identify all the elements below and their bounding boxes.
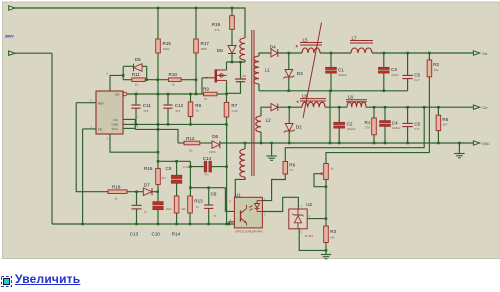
wire R13 bottom lead <box>189 213 191 224</box>
wire C8 top lead <box>208 188 210 205</box>
wire U2 anode down <box>299 229 326 251</box>
wire C8 bottom lead <box>208 208 210 224</box>
wire R16 bottom to D7 row / C10 top <box>157 184 159 201</box>
wire primary ground rail D6 to GND terminal <box>220 142 474 144</box>
svg-text:GND: GND <box>482 142 490 146</box>
capacitor C4 <box>380 121 402 131</box>
wire ground stem secondary <box>271 143 273 156</box>
wire R5 top lead <box>437 107 439 115</box>
zoom icon <box>1 274 12 285</box>
wire U2 ref to divider <box>307 218 326 220</box>
wire R11 to R10 <box>145 79 168 81</box>
transformer primary winding bottom <box>240 149 245 177</box>
wire IC FB pin <box>83 128 96 130</box>
resistor R12 <box>184 136 200 153</box>
wire R2 bottom 24v sense down <box>428 77 430 153</box>
wire L5 to L7 <box>320 52 351 54</box>
ground secondary common <box>266 156 276 160</box>
wire 24V common down-link to ground rail <box>329 91 331 143</box>
wire C5 bottom lead <box>407 79 409 91</box>
svg-text:L8: L8 <box>348 94 354 99</box>
capacitor C8 <box>204 191 217 217</box>
wire gate drive bus from IC output <box>127 93 204 95</box>
wire IC right pins crossbar <box>134 119 136 129</box>
svg-text:1000uF: 1000uF <box>347 127 356 131</box>
svg-text:12v: 12v <box>482 106 488 110</box>
svg-text:C9: C9 <box>166 166 172 171</box>
wire D2 bottom lead <box>288 131 290 143</box>
resistor preset 1k divider top <box>319 164 334 180</box>
svg-text:475: 475 <box>143 109 148 113</box>
wire left column x=52 down to bottom bus <box>51 53 53 224</box>
svg-text:R3: R3 <box>330 229 336 234</box>
wire C2 top lead <box>338 107 340 122</box>
wire REF column down to R18 <box>76 103 108 192</box>
op-amp U2 TL431 shunt regulator <box>289 202 314 238</box>
svg-text:REF: REF <box>98 101 104 105</box>
wire preset wiper loop <box>314 174 326 187</box>
wire R9 to source column <box>217 93 227 95</box>
wire C5 top lead <box>407 53 409 75</box>
svg-text:R18: R18 <box>112 185 121 190</box>
svg-text:0.47: 0.47 <box>415 127 421 131</box>
svg-text:R12: R12 <box>186 136 195 141</box>
wire D5 top right <box>142 65 147 67</box>
transformer core <box>252 30 254 176</box>
inductor L7 <box>350 35 373 53</box>
ground TL431 divider <box>321 255 331 259</box>
wire optocoupler pin2 jog to C8 link <box>225 188 235 212</box>
wire R8 top lead <box>190 94 192 102</box>
svg-text:GND: GND <box>112 123 120 127</box>
wire R19 top lead <box>231 8 233 16</box>
svg-text:R13: R13 <box>194 199 203 204</box>
svg-text:47u: 47u <box>204 172 209 176</box>
capacitor C3 <box>378 67 399 77</box>
wire C10 bottom to bus <box>157 209 159 224</box>
resistor R8 <box>188 102 201 117</box>
wire FB column down to bus <box>82 129 84 224</box>
resistor R18 <box>108 185 127 201</box>
svg-text:47: 47 <box>290 168 294 172</box>
wire L2 bottom to ground rail <box>260 132 262 143</box>
wire 300V top rail from input terminal to transformer primary <box>14 8 245 38</box>
resistor R11 <box>132 72 145 86</box>
inductor L8 <box>346 94 367 107</box>
diode D7 <box>143 183 152 196</box>
svg-text:300V: 300V <box>5 33 14 38</box>
svg-text:D5: D5 <box>135 57 141 62</box>
svg-text:R11: R11 <box>132 72 141 77</box>
wire 24V common bus y=90.8 <box>259 90 408 92</box>
wire R18 to D7 <box>127 191 143 193</box>
terminal input top (300V+) <box>9 6 15 10</box>
svg-text:D8: D8 <box>217 48 223 53</box>
diode D2 zener <box>284 124 302 133</box>
wire L8 to 12v terminal <box>366 106 473 108</box>
svg-text:10: 10 <box>135 83 139 87</box>
svg-text:C11: C11 <box>143 103 152 108</box>
wire R12 left lead <box>178 142 184 144</box>
wire D7 to R16 column <box>152 191 158 193</box>
svg-text:C6: C6 <box>414 121 420 126</box>
svg-text:R5: R5 <box>442 117 448 122</box>
svg-text:R2: R2 <box>433 62 439 67</box>
svg-text:R19: R19 <box>212 22 221 27</box>
capacitor snubber 100p <box>235 75 247 82</box>
capacitor C10 <box>152 202 173 237</box>
op-amp U3 PWM controller IC <box>91 73 139 141</box>
wire divider column below preset <box>325 180 327 227</box>
svg-text:C5: C5 <box>414 73 420 78</box>
svg-text:L2: L2 <box>266 117 272 122</box>
diode rectifier 12v <box>271 104 278 111</box>
wire R19 to D8 <box>231 29 233 45</box>
svg-text:24v: 24v <box>482 52 488 56</box>
inductor L1 secondary <box>254 56 271 84</box>
resistor R9 <box>203 87 217 101</box>
wire C1 bottom lead <box>330 73 332 91</box>
svg-text:C2: C2 <box>347 121 353 126</box>
diode D5 <box>134 57 143 71</box>
resistor R15 <box>156 39 172 53</box>
svg-text:L5: L5 <box>303 37 309 42</box>
svg-text:R10: R10 <box>169 72 178 77</box>
wire R2 top lead <box>428 53 430 60</box>
wire R3 bottom to ground <box>325 243 327 255</box>
terminal input bottom (300V-) <box>9 51 15 55</box>
coupling line L5-L6 <box>303 23 322 119</box>
wire R12 to D6 <box>200 142 212 144</box>
wire comp line y=161.3 <box>158 160 190 162</box>
capacitor C12 <box>163 103 183 113</box>
capacitor C2 <box>334 121 356 131</box>
svg-text:R16: R16 <box>144 166 153 171</box>
svg-text:1k: 1k <box>196 109 200 113</box>
wire IC top pin to D5/R11 pair <box>110 75 123 90</box>
svg-text:220uF: 220uF <box>391 73 399 77</box>
resistor R14 <box>172 196 186 236</box>
resistor R13 <box>188 196 203 213</box>
wire primary-2 winding top lead <box>244 143 246 149</box>
wire IC NC pin <box>123 118 135 120</box>
wire C13 top lead <box>136 192 138 206</box>
diode D4 <box>270 44 278 57</box>
capacitor C5 <box>402 73 420 83</box>
wire gate horizontal <box>202 77 208 79</box>
svg-text:FB: FB <box>98 127 102 131</box>
diode D3 zener <box>283 70 303 79</box>
wire L1 top to D4 <box>259 53 271 56</box>
resistor R10 <box>169 72 182 86</box>
capacitor C14 <box>203 156 212 177</box>
svg-text:C3: C3 <box>391 67 397 72</box>
svg-text:C4: C4 <box>392 121 398 126</box>
resistor R1 <box>365 118 377 135</box>
svg-text:472: 472 <box>175 109 180 113</box>
wire C12 bottom lead <box>167 108 169 124</box>
svg-text:D6: D6 <box>212 134 218 139</box>
svg-text:DX06: DX06 <box>209 150 216 154</box>
svg-text:R9: R9 <box>203 87 209 92</box>
wire IC GND pin <box>123 123 135 125</box>
svg-text:270: 270 <box>365 126 370 130</box>
svg-text:U2: U2 <box>306 202 312 207</box>
wire IC bottom pin to R16 column <box>110 134 158 152</box>
wire D3 bottom lead <box>288 77 290 91</box>
svg-text:4k7: 4k7 <box>162 176 167 180</box>
svg-text:C12: C12 <box>175 103 184 108</box>
wire C13 bottom lead <box>136 209 138 224</box>
wire D5/R11 left link <box>122 66 124 79</box>
inductor L2 secondary <box>256 116 271 132</box>
wire L1 bottom to common bus <box>258 84 260 91</box>
diode D8 <box>217 46 236 54</box>
wire 12v supply line to R6 <box>285 107 424 161</box>
wire sense column x=226.6 down to bottom bus <box>226 124 228 224</box>
wire C11 top lead <box>135 94 137 105</box>
svg-text:1000uF: 1000uF <box>338 73 347 77</box>
resistor R5 <box>436 115 449 130</box>
resistor R3 <box>324 226 337 243</box>
wire IC VCC pin <box>123 127 135 129</box>
wire ground stem output <box>458 143 460 153</box>
svg-text:OPTOCOUPLER-NPN: OPTOCOUPLER-NPN <box>235 230 262 234</box>
wire optocoupler LED cathode to TL431 <box>262 197 298 211</box>
svg-text:R8: R8 <box>195 103 201 108</box>
wire C14 left lead <box>190 166 204 168</box>
svg-text:1000uF: 1000uF <box>392 126 401 130</box>
svg-text:10: 10 <box>172 83 176 87</box>
capacitor C13 <box>130 205 148 236</box>
capacitor C1 <box>326 67 348 77</box>
wire C4 bottom lead <box>384 126 386 143</box>
wire IC decoupling bus y=124 <box>135 123 226 125</box>
op-amp U1 optocoupler <box>230 192 267 233</box>
wire R17 column top <box>195 8 197 39</box>
wire R8 bottom lead <box>190 117 192 125</box>
svg-text:C1: C1 <box>338 68 344 73</box>
inductor L5 coupled <box>296 37 323 53</box>
svg-text:D2: D2 <box>296 124 302 129</box>
svg-text:M0: M0 <box>331 236 335 240</box>
wire C3 top lead <box>383 53 385 67</box>
wire bus to optocoupler emitter pin <box>229 222 235 224</box>
svg-text:R6: R6 <box>289 163 295 168</box>
svg-text:3k2: 3k2 <box>181 207 186 211</box>
svg-text:10k: 10k <box>434 68 439 72</box>
svg-text:R17: R17 <box>201 41 210 46</box>
wire primary bottom to drain rail <box>244 60 246 62</box>
wire L7 to 24v terminal <box>372 52 473 54</box>
wire D3 top lead <box>288 53 290 70</box>
inductor L6 coupled <box>297 94 327 108</box>
svg-text:R7: R7 <box>231 103 237 108</box>
wire VCC supply line to R12 <box>135 129 178 143</box>
diode D6 <box>209 134 220 154</box>
svg-text:1n: 1n <box>144 210 148 214</box>
wire R7 bottom to IC bus <box>226 117 228 124</box>
wire C9 top lead <box>176 161 178 175</box>
resistor R2 <box>427 60 439 77</box>
wire D2 top lead <box>288 107 290 123</box>
svg-text:n1: n1 <box>213 213 217 217</box>
label 300V <box>5 33 14 38</box>
svg-text:10: 10 <box>189 148 193 152</box>
wire snubber cap bottom lead <box>227 82 241 94</box>
wire R15 column top <box>157 8 159 39</box>
wire R6 bottom to optocoupler LED <box>262 174 285 201</box>
svg-text:L7: L7 <box>352 35 358 40</box>
wire D5/R11 right link <box>146 66 148 79</box>
wire gate riser <box>201 78 203 94</box>
wire L2 top to rectifier diode <box>261 107 271 116</box>
resistor R6 <box>283 162 296 175</box>
wire R11 left lead <box>123 79 132 81</box>
wire winding return to optocoupler pin1 <box>235 177 245 201</box>
svg-text:D3: D3 <box>297 71 303 76</box>
wire R10 to R17 column <box>181 79 196 81</box>
resistor R17 <box>194 39 210 53</box>
capacitor C6 <box>402 121 420 131</box>
svg-text:C13: C13 <box>130 231 139 236</box>
wire R1 bottom lead <box>373 135 375 143</box>
wire D5 top left <box>123 65 133 67</box>
svg-text:340k: 340k <box>163 47 170 51</box>
svg-text:TL431: TL431 <box>305 234 314 238</box>
capacitor C9 <box>166 165 191 184</box>
wire IC REF pin <box>76 102 96 104</box>
wire drain rail under snubber <box>227 61 246 63</box>
svg-text:47k: 47k <box>215 28 220 32</box>
resistor R7 <box>224 102 238 117</box>
svg-text:5M6: 5M6 <box>201 47 207 51</box>
wire C6 top lead <box>407 107 409 123</box>
wire input terminal 2 to left routing column <box>14 52 52 54</box>
resistor R19 <box>212 16 235 32</box>
link text Увеличить <box>15 272 80 286</box>
svg-text:C10: C10 <box>152 231 161 236</box>
wire R17 column down to gate bus <box>195 53 197 94</box>
svg-text:0.22: 0.22 <box>232 109 238 113</box>
terminal output 12v <box>473 105 487 110</box>
wire C14 right lead <box>212 166 227 168</box>
terminal output 24v <box>473 51 487 56</box>
svg-text:L1: L1 <box>265 68 271 73</box>
wire R14 bottom lead <box>176 213 178 224</box>
wire C3 bottom lead <box>383 73 385 91</box>
wire C6 bottom lead <box>407 127 409 143</box>
wire C8 link line y=187.7 <box>190 187 225 189</box>
svg-text:D7: D7 <box>144 183 150 188</box>
transistor Q1 MOSFET <box>206 69 227 82</box>
wire C1 top lead <box>330 53 332 67</box>
svg-text:100: 100 <box>242 75 247 78</box>
wire L6 to L8 <box>325 106 347 108</box>
svg-text:0.47: 0.47 <box>415 78 421 82</box>
svg-text:U1: U1 <box>235 192 241 197</box>
wire R5 bottom lead <box>437 131 439 143</box>
wire D8 to drain rail <box>231 54 233 63</box>
svg-text:2.2uF: 2.2uF <box>183 165 190 169</box>
wire C2 bottom lead <box>338 128 340 143</box>
wire MOSFET drain riser <box>226 62 228 70</box>
resistor R16 <box>144 166 166 185</box>
svg-text:10uF: 10uF <box>166 207 173 211</box>
svg-text:C8: C8 <box>211 191 217 196</box>
wire C11 bottom lead <box>135 108 137 124</box>
wire C12 top lead <box>167 94 169 105</box>
wire snubber cap top lead <box>240 62 242 79</box>
capacitor C11 <box>131 103 151 113</box>
svg-text:C14: C14 <box>203 156 212 161</box>
svg-text:4k7: 4k7 <box>443 123 448 127</box>
wire D4 to L5 <box>278 52 302 54</box>
wire C9 bottom to R14 <box>176 183 178 196</box>
wire C4 top lead <box>384 107 386 120</box>
wire rectifier to L6 <box>278 106 302 108</box>
wire 24v sense line to divider <box>326 153 429 164</box>
wire R1 top lead <box>373 107 375 118</box>
svg-text:47: 47 <box>204 97 208 101</box>
transformer primary winding top <box>240 38 245 60</box>
svg-text:OB: OB <box>115 93 119 97</box>
svg-text:R15: R15 <box>163 41 172 46</box>
svg-text:D4: D4 <box>270 44 276 49</box>
wire bottom ground bus <box>52 223 238 225</box>
svg-text:R1: R1 <box>365 120 371 125</box>
wire source column to R7 <box>226 80 228 102</box>
svg-text:VCC: VCC <box>112 127 119 131</box>
wire R15 to R11/R10 junction and down to R16 <box>157 53 159 169</box>
ground output rail <box>454 154 464 158</box>
svg-text:R14: R14 <box>172 231 181 236</box>
terminal output GND <box>473 141 490 146</box>
wire R13 top lead <box>189 161 191 196</box>
